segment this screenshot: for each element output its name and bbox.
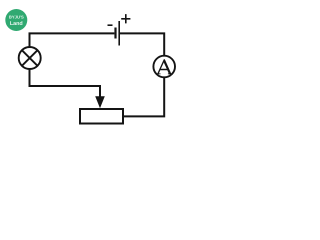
wire lamp bottom to bottom-left corner to slider corner — [30, 70, 101, 86]
wire battery positive to top-right corner to ammeter top — [120, 33, 164, 55]
wire rheostat right to bottom-right corner to ammeter bottom — [124, 78, 164, 116]
battery minus label — [108, 24, 113, 26]
rheostat RH1 body — [80, 109, 123, 124]
lamp L1 (circle with cross) — [19, 47, 41, 69]
battery cell B1 negative plate (short) — [114, 28, 116, 39]
svg-text:Land: Land — [10, 21, 23, 27]
svg-text:BYJU'S: BYJU'S — [9, 15, 24, 20]
battery plus label — [121, 14, 130, 23]
wire battery negative to top-left corner to lamp top — [30, 33, 115, 46]
ammeter A1 — [153, 56, 175, 78]
battery cell B1 positive plate (long) — [118, 21, 120, 46]
logo watermark green circle — [5, 9, 27, 31]
rheostat slider arrow — [95, 85, 105, 108]
